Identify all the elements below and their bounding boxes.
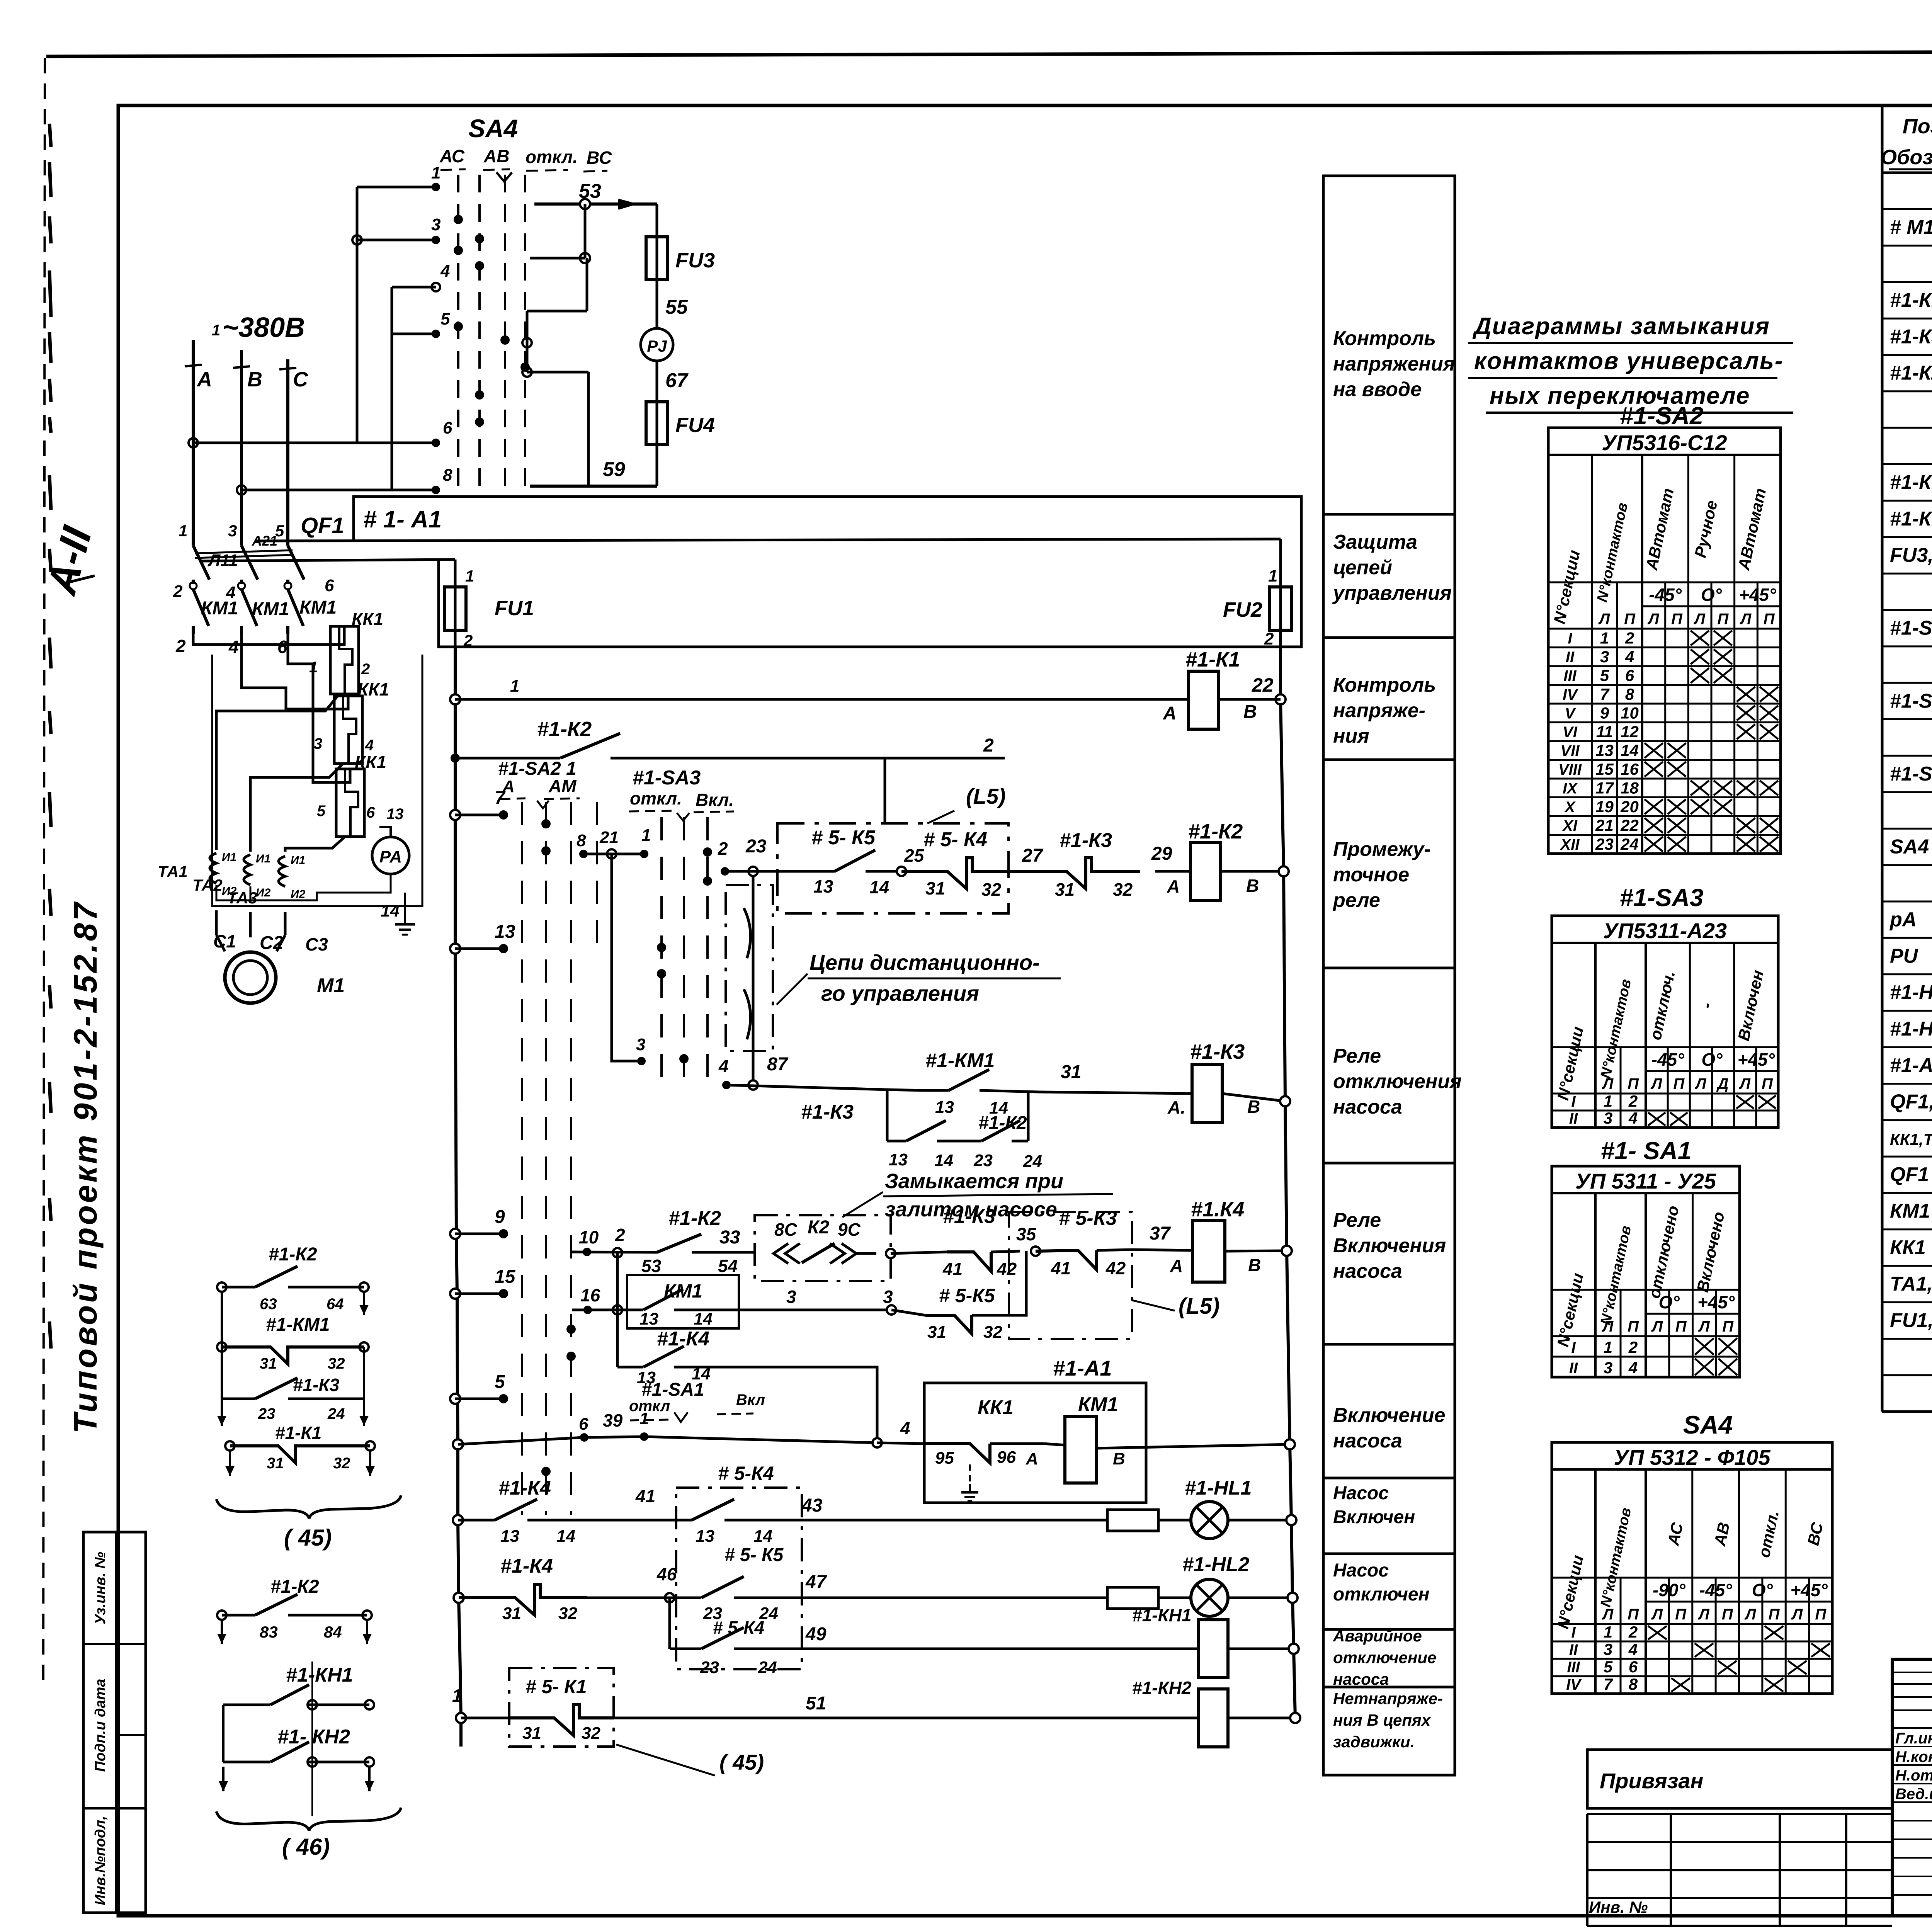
svg-text:10: 10 [579,1227,599,1247]
svg-text:#1-HL1: #1-HL1 [1890,981,1932,1004]
svg-text:КК1,ТА1,2,3: КК1,ТА1,2,3 [1890,1130,1932,1148]
svg-text:Инв.№подл,: Инв.№подл, [92,1816,109,1905]
svg-text:7: 7 [1604,1675,1613,1693]
wires TA to motor terminals [215,910,218,935]
wire FU3 to voltmeter [656,279,658,329]
svg-text:О°: О° [1701,1049,1723,1070]
svg-text:12: 12 [1621,723,1639,741]
wire voltmeter to FU4 [656,361,658,402]
wire rung2 drop to L5 box [884,758,886,823]
svg-text:87: 87 [767,1054,789,1075]
svg-text:Включен: Включен [1333,1507,1415,1527]
svg-text:54: 54 [718,1256,738,1276]
svg-text:2: 2 [361,661,370,678]
binding table Привязан [1587,1750,1892,1808]
svg-text:КК1: КК1 [357,679,389,699]
svg-text:Реле: Реле [1333,1209,1381,1231]
ground in А1 box [969,1464,971,1484]
svg-text:IX: IX [1563,780,1578,797]
svg-text:1: 1 [1600,629,1609,647]
svg-text:В: В [1246,876,1259,896]
svg-text:1: 1 [179,522,187,540]
svg-text:откл.: откл. [526,147,578,167]
svg-text:-45°: -45° [1699,1580,1732,1600]
svg-text:Нетнапряже-: Нетнапряже- [1333,1689,1443,1708]
svg-text:3: 3 [228,522,237,540]
wire Л11 to FU1 [201,560,455,561]
svg-text:1: 1 [431,163,440,182]
svg-text:# М1: # М1 [1890,216,1932,238]
dash-dot box L5 rung5 [1009,1212,1132,1339]
svg-text:А: А [1163,703,1177,724]
svg-text:И1: И1 [291,854,305,867]
svg-text:#1-К4: #1-К4 [498,1477,551,1499]
svg-text:23: 23 [973,1151,993,1170]
svg-text:#1-К2: #1-К2 [269,1244,317,1265]
svg-text:Инв. №: Инв. № [1589,1898,1648,1916]
svg-text:КК1: КК1 [352,609,383,629]
svg-text:С1: С1 [213,931,236,951]
svg-text:УП 5311 - У25: УП 5311 - У25 [1575,1169,1716,1193]
wire phase A [192,340,195,538]
relay coil #1-КН1 [1199,1620,1228,1678]
svg-text:4: 4 [1628,1640,1638,1658]
svg-text:Диаграммы замыкания: Диаграммы замыкания [1472,313,1770,340]
svg-text:#1- SА1: #1- SА1 [1601,1137,1692,1165]
svg-text:42: 42 [997,1259,1017,1279]
ammeter РА [372,837,409,874]
svg-text:22: 22 [1252,674,1274,696]
svg-text:4: 4 [900,1418,910,1438]
svg-text:рА: рА [1889,908,1917,931]
brace L5 [216,1495,401,1519]
svg-text:9С: 9С [838,1219,861,1240]
svg-text:#1-SА3: #1-SА3 [1890,617,1932,639]
svg-text:Н.отд: Н.отд [1895,1767,1932,1784]
svg-text:I: I [1571,1624,1576,1641]
svg-text:3: 3 [431,215,440,234]
svg-text:# 5- К4: # 5- К4 [923,828,987,851]
svg-text:точное: точное [1333,864,1409,886]
svg-text:#1-К1: #1-К1 [1185,648,1240,671]
svg-text:К2: К2 [808,1217,830,1238]
svg-text:Гл.инж.п.-: Гл.инж.п.- [1895,1730,1932,1747]
voltmeter PJ [641,328,673,361]
svg-text:( 45): ( 45) [284,1525,332,1551]
svg-text:5: 5 [317,803,326,820]
svg-text:# 5- К1: # 5- К1 [526,1676,587,1697]
fuse FU4 [646,402,668,444]
svg-text:А: А [1167,876,1180,896]
svg-text:П: П [1628,1606,1639,1623]
svg-text:I: I [1571,1339,1576,1356]
svg-text:14: 14 [694,1310,713,1328]
svg-text:И2: И2 [256,886,271,899]
wire stub 13 [450,944,460,954]
svg-text:Н.контр.: Н.контр. [1895,1748,1932,1765]
svg-text:П: П [1722,1318,1734,1335]
svg-text:ТА1,2,3: ТА1,2,3 [1890,1273,1932,1295]
svg-text:напряжения: напряжения [1333,353,1455,375]
svg-text:15: 15 [495,1267,516,1287]
svg-text:И1: И1 [222,851,236,864]
svg-text:-45°: -45° [1651,1049,1684,1070]
svg-text:Л: Л [1791,1606,1803,1623]
thermal relay KK1 element 3 [336,769,364,837]
svg-text:#1-КН1: #1-КН1 [286,1664,353,1686]
block #1-A1 outline [354,497,1301,647]
thermal relay KK1 element 2 [334,696,362,764]
node after chevrons [886,1249,895,1258]
svg-text:АС: АС [439,146,465,166]
svg-text:22: 22 [1620,816,1639,835]
switch SA4 dashed columns [457,175,459,497]
svg-text:ВС: ВС [587,148,612,168]
svg-text:FU2: FU2 [1223,598,1262,621]
svg-text:#1-К4: #1-К4 [500,1555,553,1577]
svg-text:1: 1 [452,1685,462,1706]
svg-text:( 45): ( 45) [719,1750,764,1774]
SA4 feeder verticals [356,187,359,443]
svg-text:XII: XII [1560,836,1580,853]
svg-text:2: 2 [983,735,994,756]
svg-text:6: 6 [1625,667,1634,685]
wire control tap [255,539,1281,541]
svg-text:ТА3: ТА3 [227,889,257,907]
svg-text:КМ1: КМ1 [1890,1200,1930,1223]
svg-text:# 1- А1: # 1- А1 [363,506,442,533]
svg-text:43: 43 [801,1495,823,1516]
svg-text:#1-К2: #1-К2 [537,718,592,741]
svg-text:#1-КН1: #1-КН1 [1132,1605,1192,1625]
svg-text:контактов универсаль-: контактов универсаль- [1474,348,1783,374]
svg-text:О°: О° [1701,585,1722,605]
svg-text:#1-К3: #1-К3 [801,1101,854,1123]
svg-text:5: 5 [1600,667,1609,685]
svg-text:Д: Д [1716,1075,1729,1092]
svg-text:П: П [1764,611,1775,628]
svg-text:13: 13 [696,1527,714,1546]
svg-text:Промежу-: Промежу- [1333,838,1431,861]
title block outer frame [1892,1659,1932,1916]
svg-text:цепей: цепей [1333,556,1392,579]
svg-text:I: I [1568,630,1572,647]
wire rung 11 нет напряжения 51 [456,1713,466,1723]
svg-text:13: 13 [639,1310,658,1328]
thermal relay KK1 element 1 [330,626,359,694]
svg-text:PU: PU [1890,945,1918,967]
svg-text:отключение: отключение [1333,1648,1436,1667]
contact #1-К4 13-14 drop [616,1310,619,1367]
svg-text:Реле: Реле [1333,1045,1381,1067]
svg-text:#1.К4: #1.К4 [1191,1198,1244,1221]
svg-text:В: В [1113,1449,1125,1468]
svg-text:32: 32 [983,1323,1002,1342]
binding table grid [1587,1813,1892,1815]
node 25 [897,867,906,876]
fuse FU3 [656,204,658,237]
switch column dots [541,819,551,828]
svg-text:24: 24 [327,1405,345,1422]
svg-text:-90°: -90° [1653,1580,1685,1600]
svg-text:Л: Л [1602,1318,1614,1335]
svg-text:41: 41 [942,1259,963,1279]
svg-text:1: 1 [1604,1623,1612,1641]
svg-text:отключения: отключения [1333,1070,1462,1093]
dash-dot box L5 top [777,823,1009,913]
svg-text:3: 3 [636,1035,645,1054]
svg-text:FU3: FU3 [675,249,715,272]
svg-text:3: 3 [1604,1109,1612,1127]
svg-text:#1-К2: #1-К2 [1188,820,1243,843]
svg-text:8: 8 [1625,685,1634,703]
svg-text:2: 2 [1628,1623,1638,1641]
svg-text:4: 4 [718,1056,729,1076]
leader замыкается [842,1192,883,1217]
svg-text:III: III [1563,668,1577,685]
svg-text:КМ1: КМ1 [299,597,337,618]
svg-text:Замыкается при: Замыкается при [885,1170,1063,1193]
svg-text:2: 2 [175,636,186,656]
wires KK1 to TA [216,694,339,850]
svg-text:17: 17 [1595,779,1614,797]
svg-text:УП5311-А23: УП5311-А23 [1603,918,1727,943]
svg-text:25: 25 [904,845,925,866]
svg-text:13: 13 [813,876,833,896]
svg-text:отключен: отключен [1333,1584,1430,1605]
svg-text:2: 2 [1628,1092,1638,1110]
svg-text:В: В [1247,1097,1260,1117]
wire phase C [286,359,289,538]
svg-text:Л: Л [1598,611,1611,628]
left margin handwritten marks [49,124,51,147]
svg-text:14: 14 [934,1151,953,1170]
svg-text:КМ1: КМ1 [201,598,238,619]
switch diagram table SA4 [1552,1442,1832,1694]
svg-text:18: 18 [1621,779,1639,797]
svg-text:46: 46 [656,1564,677,1584]
svg-text:13: 13 [889,1150,908,1169]
svg-text:32: 32 [981,879,1002,900]
node 35 [1031,1247,1040,1256]
svg-text:2: 2 [615,1225,625,1245]
phase tick marks [185,365,202,366]
svg-text:16: 16 [1621,760,1639,778]
svg-text:SА4: SА4 [1683,1410,1733,1439]
svg-text:51: 51 [806,1693,826,1714]
svg-text:3: 3 [883,1287,893,1307]
svg-text:6: 6 [443,418,452,437]
svg-text:насоса: насоса [1333,1430,1402,1452]
wire rung 9 Насос отключен 47 [454,1593,464,1603]
svg-text:КМ1: КМ1 [1078,1393,1118,1416]
svg-text:20: 20 [1620,798,1639,816]
svg-text:2: 2 [1625,629,1634,647]
svg-text:55: 55 [665,296,688,318]
svg-text:5: 5 [1604,1658,1613,1676]
svg-text:РА: РА [379,847,402,866]
svg-text:10: 10 [1621,704,1639,722]
svg-text:напряже-: напряже- [1333,699,1425,722]
svg-text:Л: Л [1602,1075,1614,1092]
svg-text:ния: ния [1333,725,1369,747]
svg-text:ния В цепях: ния В цепях [1333,1711,1431,1729]
svg-text:31: 31 [260,1355,277,1372]
svg-text:Включение: Включение [1333,1404,1446,1427]
svg-text:21: 21 [1595,816,1614,835]
svg-text:FU1: FU1 [495,597,534,620]
svg-text:Л: Л [1694,1075,1707,1092]
svg-text:КМ1: КМ1 [664,1280,702,1302]
svg-text:#1-SА3: #1-SА3 [1620,884,1704,912]
svg-text:#1-К3: #1-К3 [293,1375,340,1395]
svg-text:47: 47 [805,1572,827,1592]
svg-text:32: 32 [1113,879,1133,900]
svg-text:Л: Л [1739,1075,1751,1092]
svg-text:24: 24 [1023,1152,1042,1171]
svg-text:9: 9 [1600,704,1609,722]
resistor rung8 [1107,1510,1158,1531]
svg-text:#1- КН2: #1- КН2 [277,1726,350,1748]
node rung6 right [887,1305,896,1315]
svg-text:1: 1 [212,322,220,339]
svg-text:П: П [1628,1075,1639,1092]
svg-text:# 5- К5: # 5- К5 [724,1545,784,1565]
svg-text:13: 13 [1595,742,1614,760]
svg-text:1: 1 [639,1409,649,1428]
wire rung 2 to #1-K2 contact [451,753,460,763]
box KM1 13-14 [627,1275,739,1328]
svg-text:Л: Л [1693,611,1706,628]
svg-text:32: 32 [582,1724,600,1743]
svg-text:В: В [1243,702,1257,722]
svg-text:П: П [1624,611,1636,628]
svg-text:31: 31 [1061,1062,1081,1082]
svg-text:II: II [1569,1110,1578,1127]
svg-text:# 5-К5: # 5-К5 [939,1285,995,1306]
svg-text:41: 41 [635,1486,655,1506]
ground symbol below ammeter [404,893,406,924]
svg-text:КК1: КК1 [355,752,386,772]
svg-text:# 5- К5: # 5- К5 [811,827,876,849]
svg-text:#1-HL2: #1-HL2 [1182,1553,1249,1576]
svg-text:23: 23 [745,836,767,857]
node 46 [665,1593,674,1602]
svg-text:1: 1 [1268,566,1277,585]
svg-text:Контроль: Контроль [1333,674,1436,696]
svg-text:#1-HL2: #1-HL2 [1890,1018,1932,1040]
remote control dash-dot box [726,885,773,1051]
switch diagram table #1-SA1 [1552,1166,1740,1377]
svg-text:31: 31 [927,1323,946,1342]
relay coil #1-КН2 [1199,1689,1228,1747]
svg-text:ТА2: ТА2 [192,876,223,894]
svg-text:АВ: АВ [483,146,509,166]
svg-text:13: 13 [495,922,515,942]
svg-text:39: 39 [603,1410,623,1430]
svg-text:QF1,КМ1,: QF1,КМ1, [1890,1091,1932,1113]
svg-text:11: 11 [1596,723,1613,741]
svg-text:Насос: Насос [1333,1560,1389,1581]
svg-text:63: 63 [260,1296,277,1313]
svg-text:II: II [1569,1360,1578,1377]
svg-text:О°: О° [1752,1580,1773,1600]
svg-text:задвижки.: задвижки. [1333,1733,1415,1751]
right bus [1279,630,1282,699]
svg-text:#1-А1: #1-А1 [1890,1054,1932,1077]
svg-text:14: 14 [753,1527,772,1546]
svg-text:П: П [1673,1075,1685,1092]
svg-text:42: 42 [1105,1258,1126,1278]
wire stub 9 [450,1229,460,1239]
wire 21 drop [612,854,641,1061]
svg-text:реле: реле [1332,889,1380,912]
switch SA4 pointer [497,172,512,182]
svg-text:6: 6 [366,804,375,821]
svg-text:Л: Л [1698,1318,1710,1335]
wire rung 7 Включение насоса [453,1439,463,1449]
svg-text:(L5): (L5) [1179,1294,1219,1319]
svg-text:+45°: +45° [1790,1580,1828,1600]
svg-text:QF1: QF1 [301,513,344,538]
wire to rung7 [715,1367,877,1443]
svg-text:управления: управления [1332,582,1452,604]
svg-text:Подп.и дата: Подп.и дата [92,1679,109,1772]
breaker QF1 [192,538,195,546]
svg-text:А: А [196,368,212,391]
svg-text:VII: VII [1561,743,1580,760]
svg-text:залитом насосе: залитом насосе [885,1198,1057,1221]
svg-text:I: I [1571,1093,1576,1110]
svg-text:4: 4 [1628,1359,1638,1377]
svg-text:2: 2 [1628,1338,1638,1356]
svg-text:64: 64 [327,1296,344,1313]
leader remote [777,974,808,1005]
svg-text:Уз.инв. №: Уз.инв. № [92,1552,109,1624]
svg-text:Л: Л [1650,1075,1663,1092]
svg-text:53: 53 [641,1256,662,1276]
svg-text:9: 9 [495,1207,505,1227]
svg-text:29: 29 [1151,844,1172,864]
svg-text:Привязан: Привязан [1600,1769,1703,1793]
svg-text:Л: Л [1744,1606,1757,1623]
dash-dot box К2 chevrons [755,1215,891,1281]
svg-text:1: 1 [1604,1092,1612,1110]
switch SA4 contact dots [454,215,463,224]
svg-text:А.: А. [1167,1097,1185,1117]
wire FU4 to 59 [656,444,658,486]
svg-text:QF1: QF1 [1890,1163,1929,1186]
svg-text:#1-SА3: #1-SА3 [633,767,701,789]
svg-text:15: 15 [1595,760,1614,778]
svg-text:IV: IV [1566,1676,1582,1693]
svg-text:2: 2 [718,838,728,859]
fuse FU2 [1279,539,1282,587]
svg-text:РJ: РJ [647,337,667,355]
wire phase B [240,350,243,538]
svg-text:КК1: КК1 [978,1396,1014,1419]
svg-text:УП5316-С12: УП5316-С12 [1602,430,1727,455]
svg-text:8: 8 [1629,1675,1638,1693]
svg-text:XI: XI [1562,818,1578,835]
svg-text:М1: М1 [317,975,345,997]
svg-text:6: 6 [277,637,287,657]
wire rung 10 аварийное 49 [668,1598,671,1649]
svg-text:X: X [1564,799,1576,816]
svg-text:84: 84 [324,1623,342,1641]
svg-text:4: 4 [365,737,374,754]
svg-text:Л: Л [1697,1606,1710,1623]
